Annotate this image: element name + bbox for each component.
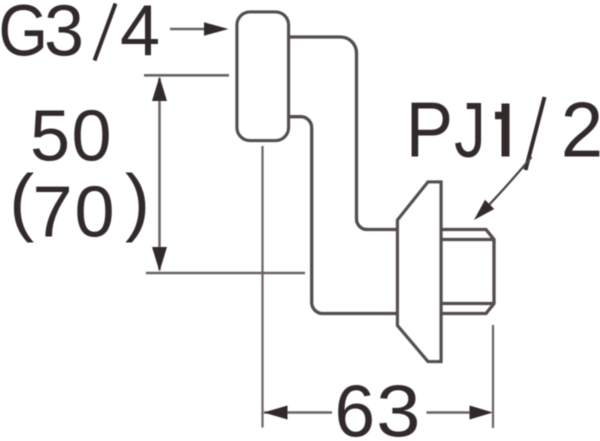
extension line bottom (50 dim lower reference) (146, 272, 305, 275)
arrowhead down (50 dim) (152, 247, 167, 272)
cylinder G3/4 socket (237, 12, 289, 141)
label (70) (9, 159, 150, 253)
pipe body inner edge (289, 117, 398, 314)
extension line right (63 dim, at thread end) (492, 325, 494, 428)
thread root lines (441, 240, 494, 304)
svg-text:70: 70 (33, 173, 117, 253)
svg-text:4: 4 (120, 0, 160, 72)
extension line left (63 dim, from cylinder center) (261, 146, 263, 428)
thread PJ1/2 outer profile with chamfers (441, 230, 494, 314)
arrowhead right (63 dim) (470, 406, 494, 420)
svg-text:P: P (406, 85, 453, 173)
dimension line 63 left segment (264, 411, 332, 414)
svg-text:50: 50 (30, 97, 113, 177)
svg-text:2: 2 (561, 87, 600, 174)
svg-text:3: 3 (376, 371, 420, 441)
svg-text:(: ( (9, 159, 34, 243)
svg-text:J: J (454, 87, 486, 174)
arrowhead up (50 dim) (152, 77, 167, 102)
arrowhead left (63 dim) (264, 406, 288, 420)
label 63 (335, 371, 421, 441)
extension line top (50 dim upper reference) (144, 74, 229, 77)
dimension line 50/(70) vertical (158, 78, 161, 270)
dimension line 63 right segment (427, 411, 472, 414)
svg-text:6: 6 (335, 372, 376, 441)
label PJ1/2 (406, 85, 600, 174)
pipe body outer edge (top arm to down pipe to bottom arm) (289, 37, 398, 230)
svg-text:3: 3 (44, 0, 84, 72)
flange (conical wall flange) (398, 182, 442, 362)
svg-text:): ) (125, 159, 150, 243)
svg-text:G: G (0, 0, 48, 71)
label G3/4 (0, 0, 160, 72)
arrow PJ1/2 (474, 157, 532, 220)
arrow G3/4 (170, 22, 229, 35)
